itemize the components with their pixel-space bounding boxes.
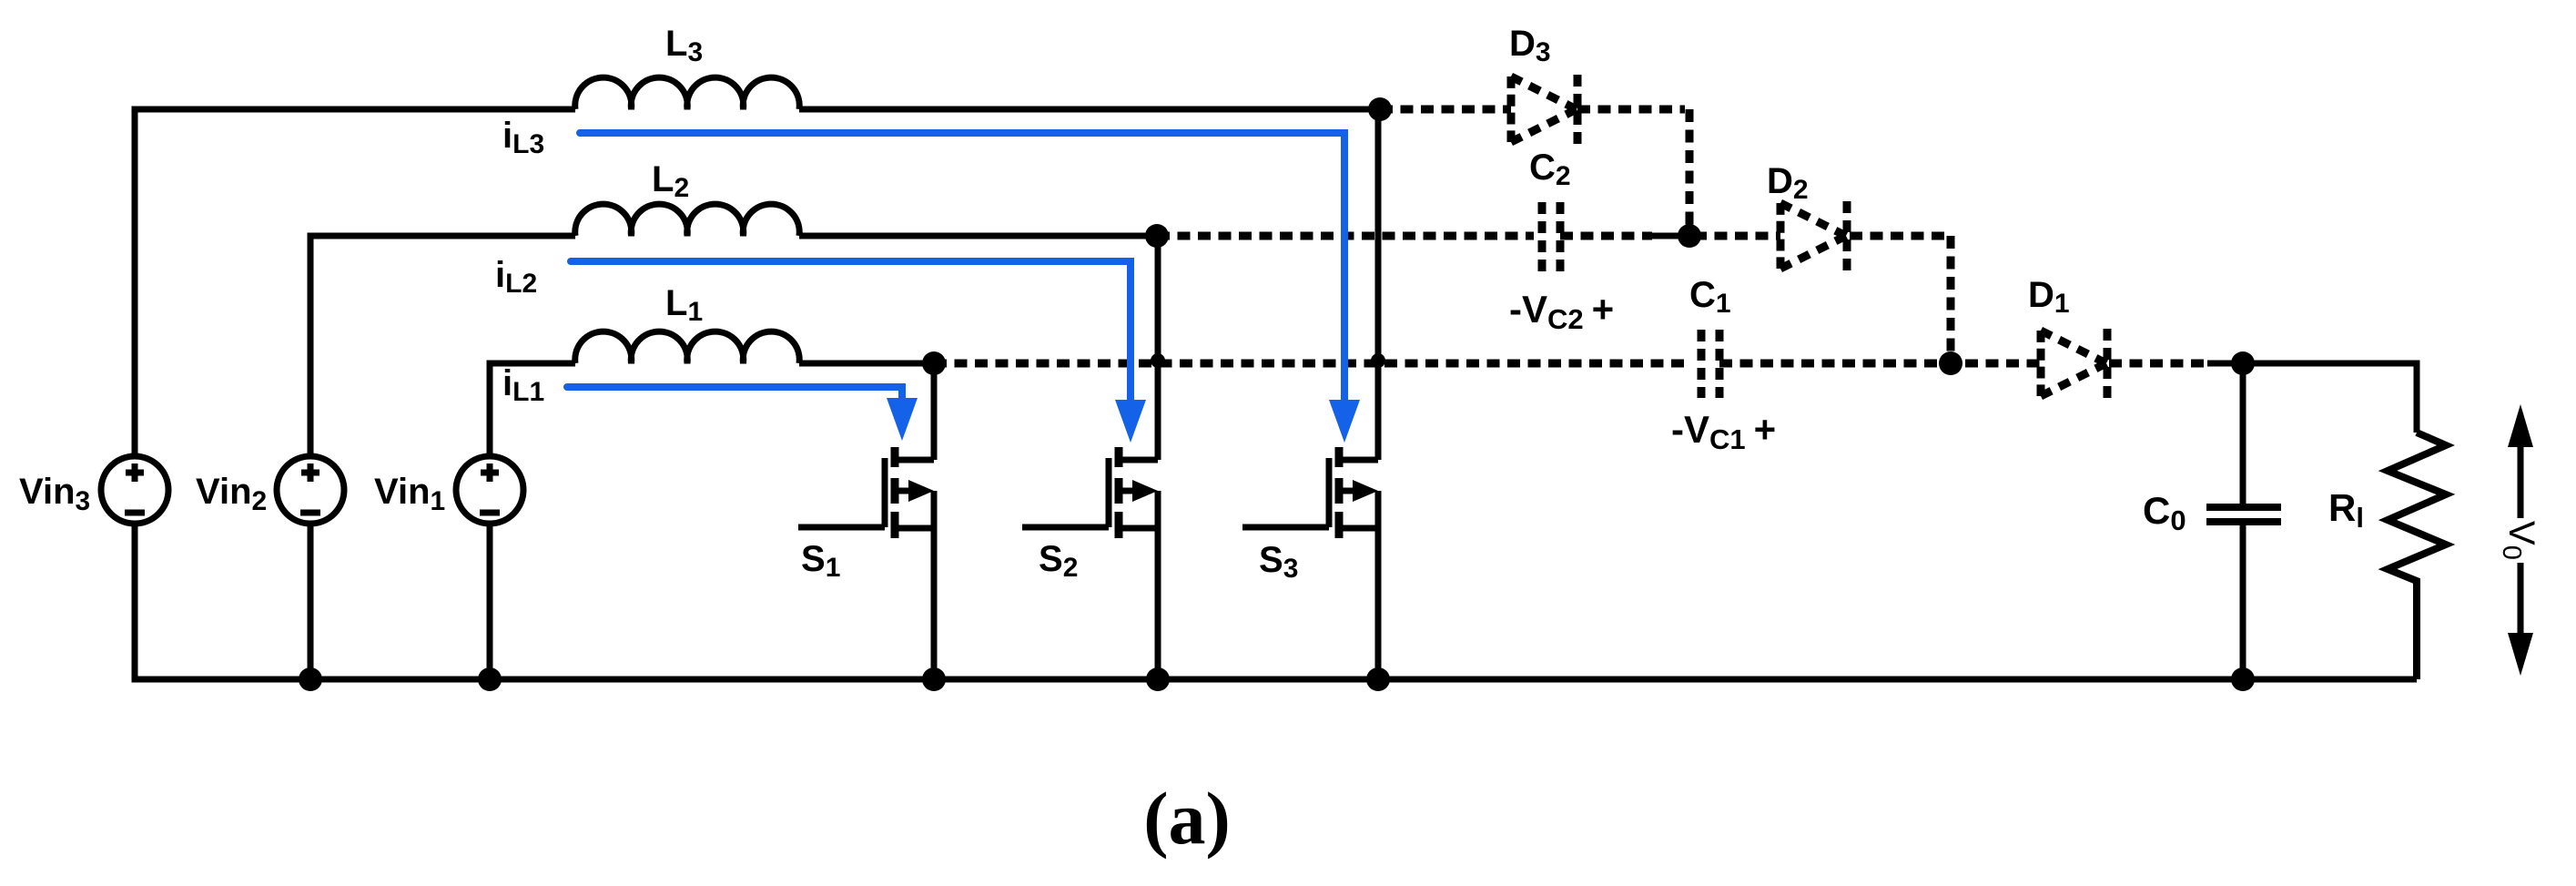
svg-text:Rl: Rl <box>2328 486 2364 534</box>
svg-text:D3: D3 <box>1509 24 1551 67</box>
svg-text:L1: L1 <box>665 283 703 327</box>
svg-text:Vin1: Vin1 <box>374 472 445 516</box>
svg-text:(a): (a) <box>1143 777 1231 860</box>
svg-text:-VC2+: -VC2+ <box>1509 288 1614 335</box>
svg-text:D2: D2 <box>1767 161 1809 205</box>
svg-text:L2: L2 <box>652 159 689 203</box>
svg-text:V0: V0 <box>2497 521 2541 560</box>
svg-text:Vin3: Vin3 <box>19 472 90 516</box>
svg-text:D1: D1 <box>2028 275 2070 319</box>
svg-text:C1: C1 <box>1689 275 1731 319</box>
svg-text:S2: S2 <box>1039 539 1078 583</box>
svg-text:C2: C2 <box>1529 148 1571 191</box>
svg-text:C0: C0 <box>2143 489 2186 536</box>
svg-text:S1: S1 <box>801 539 840 583</box>
svg-text:-VC1+: -VC1+ <box>1671 408 1776 455</box>
svg-text:S3: S3 <box>1259 540 1298 584</box>
svg-text:iL2: iL2 <box>495 255 537 299</box>
svg-text:iL1: iL1 <box>502 363 544 407</box>
svg-text:L3: L3 <box>665 24 703 67</box>
svg-text:Vin2: Vin2 <box>196 472 267 516</box>
svg-text:iL3: iL3 <box>502 116 544 159</box>
